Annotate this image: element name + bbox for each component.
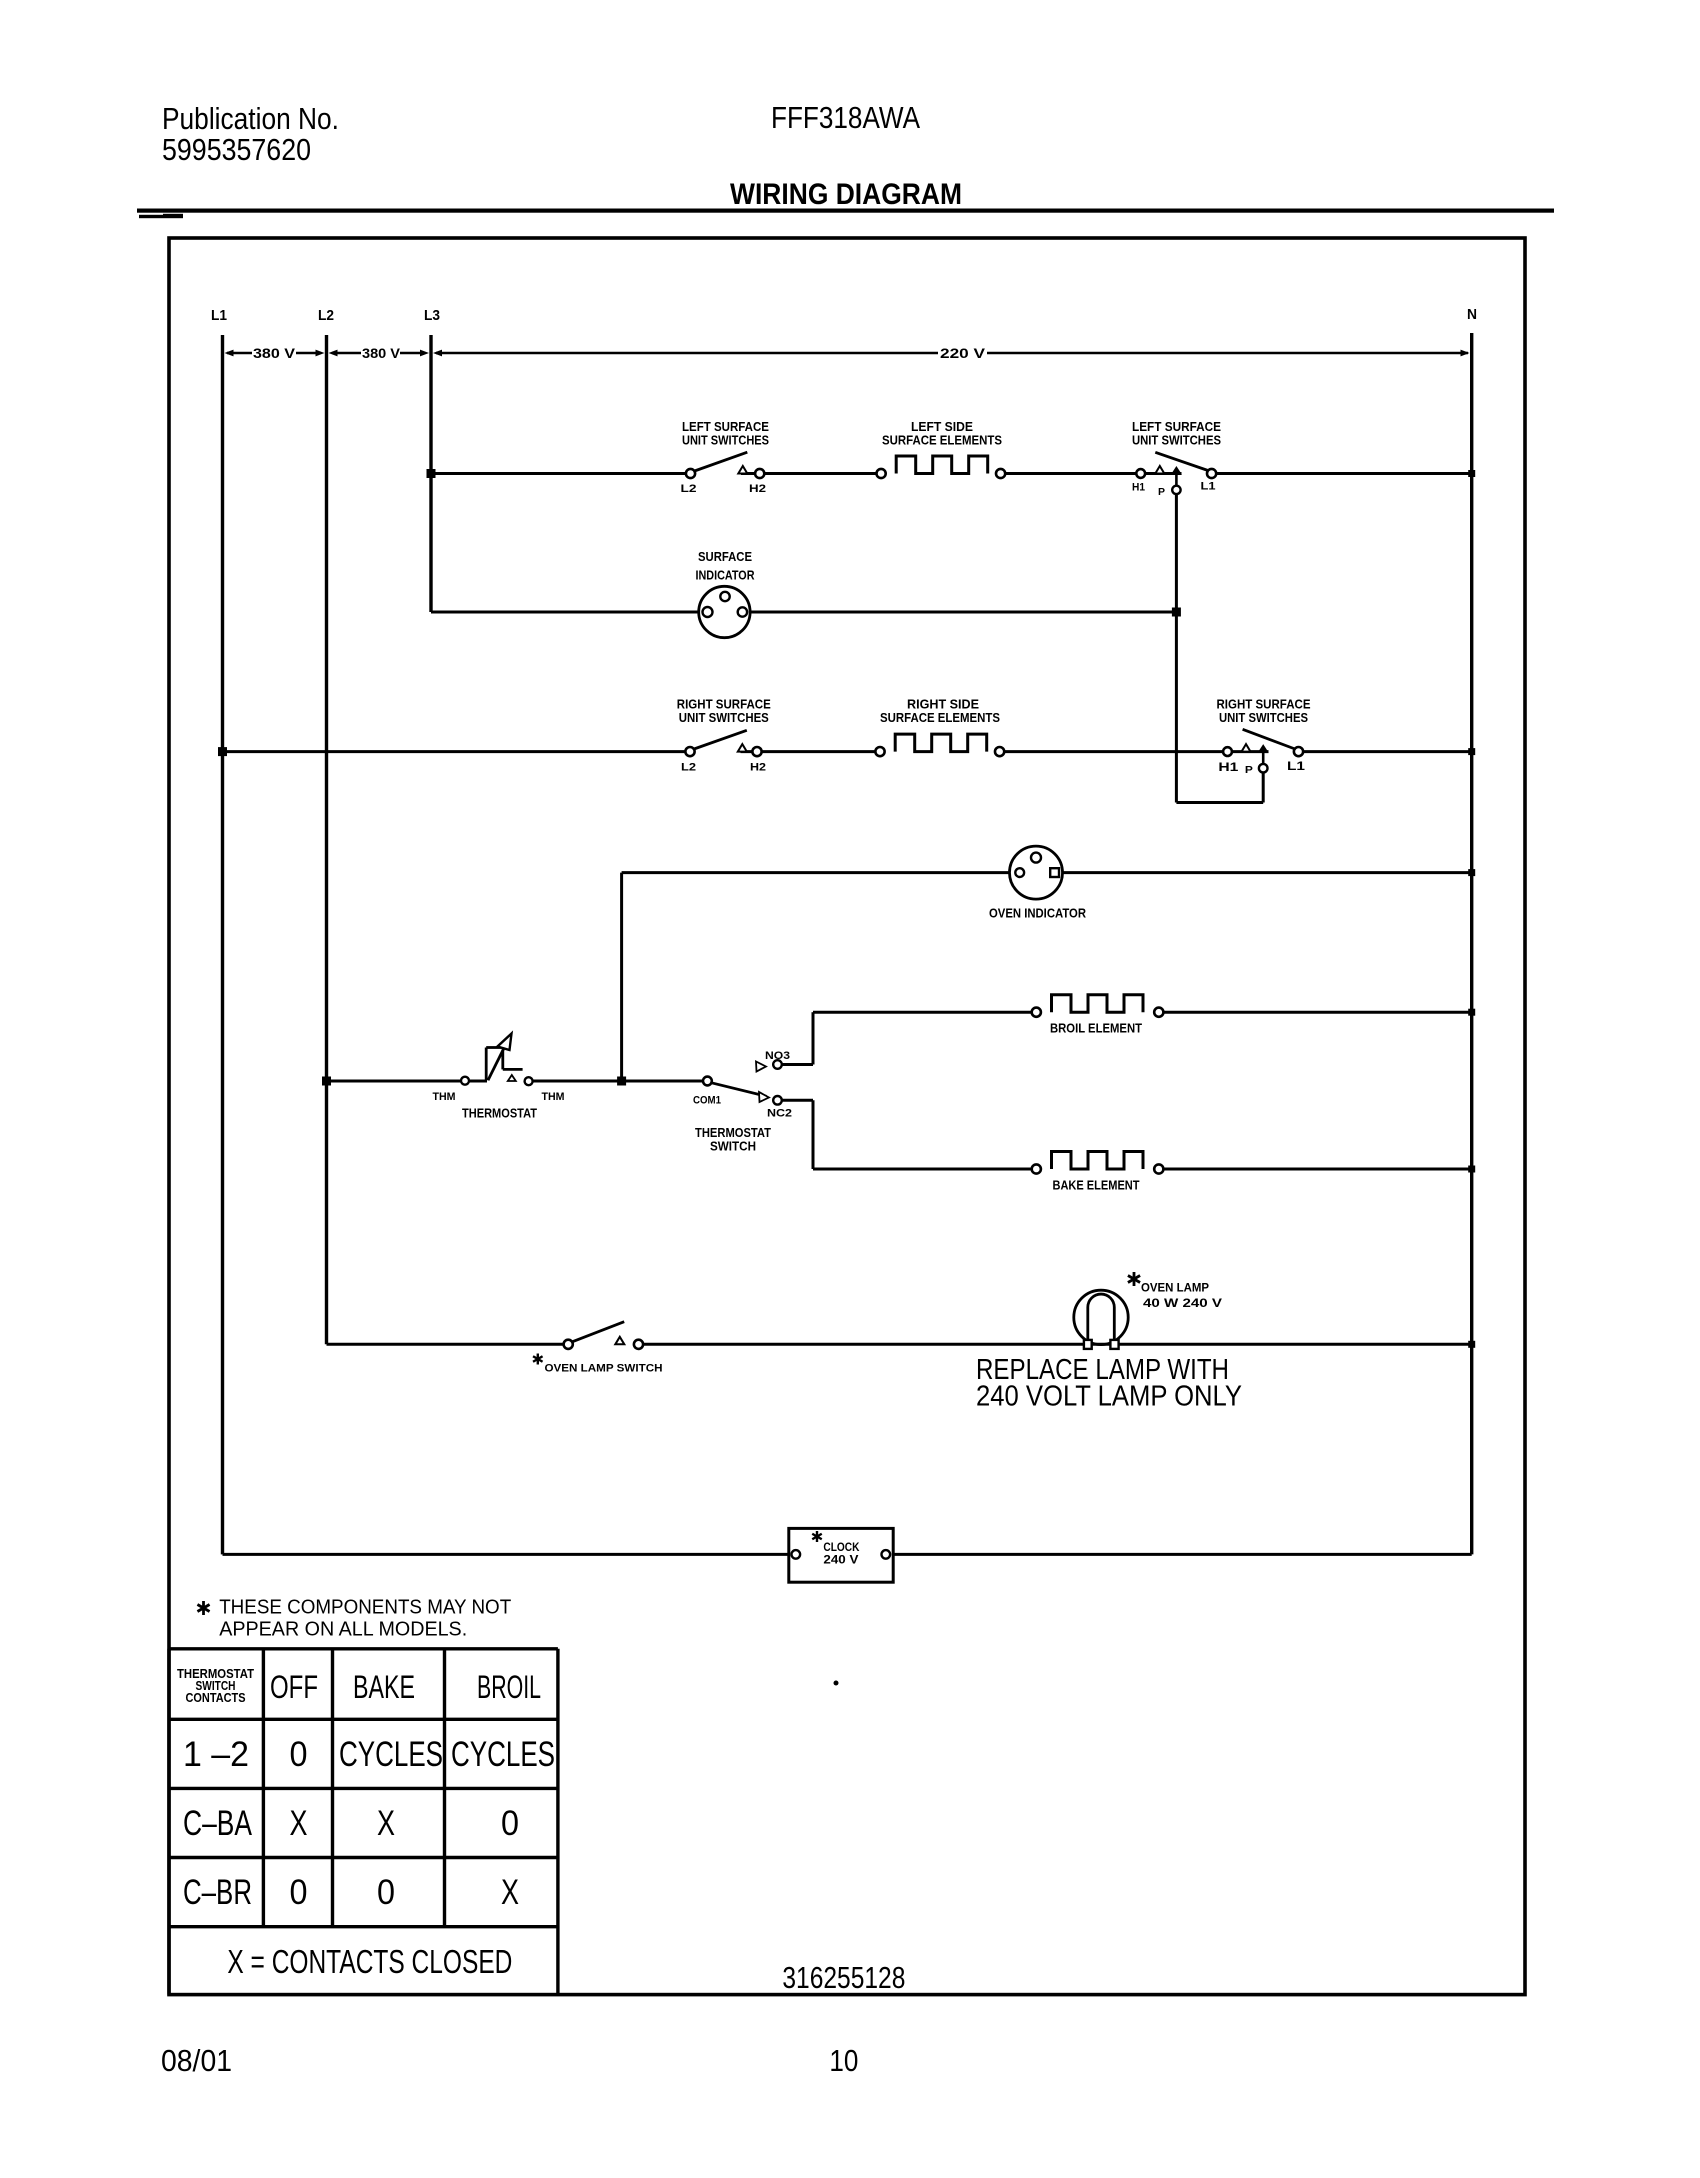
svg-text:X = CONTACTS CLOSED: X = CONTACTS CLOSED <box>227 1943 512 1980</box>
svg-text:BAKE ELEMENT: BAKE ELEMENT <box>1053 1178 1140 1193</box>
svg-text:OVEN LAMP SWITCH: OVEN LAMP SWITCH <box>545 1363 663 1375</box>
svg-text:H1: H1 <box>1132 482 1145 494</box>
svg-text:H2: H2 <box>749 483 766 495</box>
svg-text:P: P <box>1158 487 1165 498</box>
svg-text:OVEN INDICATOR: OVEN INDICATOR <box>989 906 1087 921</box>
svg-text:FFF318AWA: FFF318AWA <box>771 100 920 135</box>
svg-text:220 V: 220 V <box>940 345 986 361</box>
svg-text:L2: L2 <box>681 762 696 774</box>
svg-text:0: 0 <box>501 1804 519 1843</box>
svg-text:316255128: 316255128 <box>782 1960 905 1995</box>
svg-text:SURFACE: SURFACE <box>698 549 752 564</box>
svg-text:UNIT SWITCHES: UNIT SWITCHES <box>1132 433 1221 448</box>
svg-text:SWITCH: SWITCH <box>710 1139 756 1154</box>
svg-text:INDICATOR: INDICATOR <box>696 568 755 583</box>
svg-text:L3: L3 <box>424 307 440 324</box>
svg-text:CONTACTS: CONTACTS <box>186 1691 246 1705</box>
svg-text:08/01: 08/01 <box>161 2043 232 2078</box>
svg-text:COM1: COM1 <box>693 1095 721 1107</box>
svg-text:380 V: 380 V <box>362 345 401 361</box>
svg-text:CYCLES: CYCLES <box>339 1735 443 1774</box>
svg-text:UNIT SWITCHES: UNIT SWITCHES <box>1219 710 1308 725</box>
svg-text:L2: L2 <box>681 483 697 495</box>
svg-text:THM: THM <box>433 1091 456 1103</box>
svg-text:H2: H2 <box>750 762 766 774</box>
svg-text:Publication No.: Publication No. <box>162 101 339 136</box>
svg-text:NO3: NO3 <box>765 1050 790 1062</box>
svg-text:NC2: NC2 <box>767 1108 792 1120</box>
svg-text:240 V: 240 V <box>823 1553 858 1567</box>
svg-text:UNIT SWITCHES: UNIT SWITCHES <box>682 433 769 448</box>
svg-text:C–BA: C–BA <box>183 1804 252 1843</box>
svg-text:L1: L1 <box>1201 481 1216 493</box>
svg-text:0: 0 <box>290 1735 308 1774</box>
svg-text:THESE COMPONENTS MAY NOT: THESE COMPONENTS MAY NOT <box>219 1597 511 1619</box>
svg-text:WIRING DIAGRAM: WIRING DIAGRAM <box>730 178 962 211</box>
svg-text:0: 0 <box>290 1873 308 1912</box>
svg-text:1 –2: 1 –2 <box>183 1735 249 1774</box>
svg-text:X: X <box>377 1804 395 1843</box>
svg-text:SURFACE ELEMENTS: SURFACE ELEMENTS <box>880 710 1000 725</box>
svg-text:UNIT SWITCHES: UNIT SWITCHES <box>679 710 769 725</box>
svg-text:L1: L1 <box>1287 759 1305 773</box>
svg-text:380 V: 380 V <box>253 345 296 361</box>
svg-text:5995357620: 5995357620 <box>162 132 311 167</box>
svg-text:C–BR: C–BR <box>183 1873 252 1912</box>
svg-text:APPEAR ON ALL MODELS.: APPEAR ON ALL MODELS. <box>219 1619 467 1641</box>
svg-text:X: X <box>501 1873 519 1912</box>
svg-text:SURFACE ELEMENTS: SURFACE ELEMENTS <box>882 433 1002 448</box>
svg-text:THM: THM <box>542 1091 565 1103</box>
svg-text:CYCLES: CYCLES <box>451 1735 555 1774</box>
svg-text:X: X <box>290 1804 308 1843</box>
svg-text:BROIL ELEMENT: BROIL ELEMENT <box>1050 1021 1142 1036</box>
svg-text:P: P <box>1245 764 1253 776</box>
svg-text:10: 10 <box>829 2043 858 2078</box>
svg-text:240 VOLT LAMP ONLY: 240 VOLT LAMP ONLY <box>976 1381 1242 1413</box>
svg-text:40 W 240 V: 40 W 240 V <box>1143 1296 1222 1310</box>
svg-text:THERMOSTAT: THERMOSTAT <box>462 1106 537 1121</box>
svg-text:OVEN LAMP: OVEN LAMP <box>1141 1281 1209 1295</box>
svg-text:0: 0 <box>377 1873 395 1912</box>
svg-text:BROIL: BROIL <box>477 1669 541 1705</box>
svg-text:L1: L1 <box>211 307 227 324</box>
svg-text:BAKE: BAKE <box>353 1669 415 1705</box>
svg-text:N: N <box>1467 306 1477 323</box>
svg-text:L2: L2 <box>318 307 334 324</box>
svg-text:OFF: OFF <box>270 1669 318 1705</box>
svg-text:H1: H1 <box>1218 760 1238 774</box>
